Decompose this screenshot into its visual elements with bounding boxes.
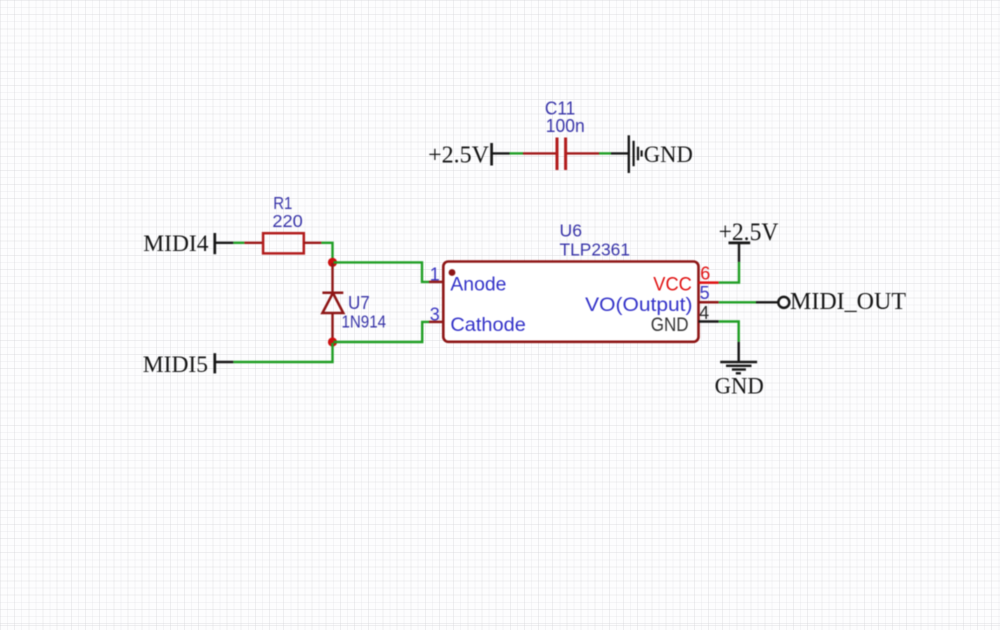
- pin 5: [699, 283, 719, 303]
- hierarchical label MIDI5: [143, 352, 234, 378]
- pin 6: [699, 263, 719, 283]
- wire: [321, 243, 332, 262]
- pin 4: [699, 303, 719, 323]
- svg-text:U7: U7: [348, 292, 370, 313]
- svg-text:MIDI_OUT: MIDI_OUT: [790, 289, 906, 315]
- svg-text:1: 1: [430, 264, 440, 284]
- svg-text:1N914: 1N914: [342, 312, 387, 332]
- wire: [334, 262, 430, 282]
- svg-text:GND: GND: [644, 142, 693, 167]
- svg-text:GND: GND: [715, 373, 764, 398]
- ground GND (bottom right): [715, 342, 764, 398]
- svg-text:Cathode: Cathode: [450, 315, 525, 336]
- hierarchical label MIDI4: [143, 231, 233, 257]
- wire: [233, 242, 244, 244]
- svg-text:6: 6: [700, 263, 710, 283]
- svg-text:VCC: VCC: [653, 275, 692, 296]
- junction B: [328, 337, 337, 346]
- svg-text:VO(Output): VO(Output): [585, 295, 692, 316]
- wire: [719, 322, 739, 342]
- svg-text:4: 4: [699, 303, 709, 323]
- wire: [719, 262, 739, 283]
- wire: [719, 301, 756, 303]
- power symbol +2.5V (right): [719, 219, 779, 262]
- svg-text:GND: GND: [651, 314, 689, 336]
- diode U7: [322, 263, 386, 342]
- power symbol +2.5V (top left): [428, 142, 509, 168]
- svg-text:+2.5V: +2.5V: [719, 219, 779, 246]
- wire: [599, 152, 611, 154]
- svg-text:Anode: Anode: [450, 274, 506, 295]
- resistor R1: [244, 193, 321, 254]
- wire: [233, 343, 332, 362]
- svg-text:MIDI5: MIDI5: [143, 352, 208, 378]
- wire: [510, 152, 524, 154]
- junction A: [328, 258, 337, 267]
- svg-text:5: 5: [700, 283, 710, 303]
- optocoupler U6 TLP2361: [443, 221, 698, 342]
- pin 1: [429, 264, 443, 284]
- svg-text:+2.5V: +2.5V: [428, 142, 490, 168]
- svg-text:R1: R1: [273, 193, 292, 213]
- svg-text:3: 3: [430, 304, 440, 324]
- svg-text:U6: U6: [560, 221, 583, 241]
- global label MIDI_OUT: [756, 289, 906, 315]
- svg-text:TLP2361: TLP2361: [560, 240, 631, 260]
- ground GND (top, rotated): [611, 135, 693, 173]
- pin 3: [429, 304, 443, 324]
- svg-text:100n: 100n: [546, 115, 585, 136]
- wire: [334, 322, 430, 342]
- svg-text:MIDI4: MIDI4: [143, 231, 209, 257]
- svg-text:220: 220: [272, 211, 303, 231]
- capacitor C11: [523, 97, 599, 170]
